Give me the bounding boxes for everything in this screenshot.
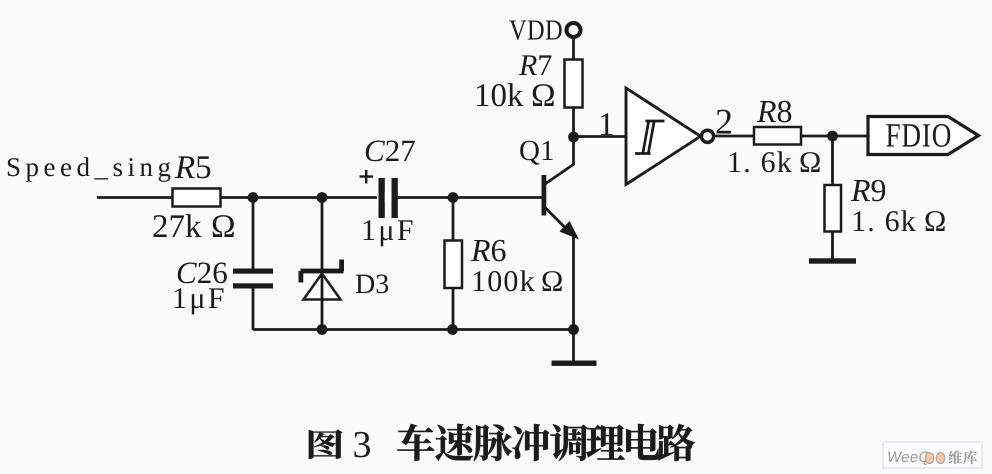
svg-text:10k: 10k (474, 78, 524, 114)
svg-text:FDIO: FDIO (886, 118, 953, 155)
svg-text:1. 6k: 1. 6k (851, 205, 917, 238)
svg-text:R5: R5 (174, 150, 212, 186)
svg-text:R6: R6 (470, 232, 507, 268)
svg-text:1μF: 1μF (172, 282, 227, 315)
svg-text:R9: R9 (850, 172, 887, 208)
svg-text:Q1: Q1 (519, 135, 554, 167)
svg-text:D3: D3 (355, 269, 389, 300)
svg-text:1μF: 1μF (361, 214, 416, 247)
svg-text:Ω: Ω (531, 78, 556, 114)
svg-text:Speed_sing: Speed_sing (6, 152, 176, 182)
svg-text:1. 6k: 1. 6k (727, 146, 793, 179)
svg-text:Ω: Ω (924, 205, 946, 238)
svg-text:Ω: Ω (541, 265, 563, 298)
svg-text:Ω: Ω (799, 146, 821, 179)
svg-text:R8: R8 (756, 93, 793, 129)
svg-text:3: 3 (353, 424, 372, 466)
svg-text:Ω: Ω (211, 209, 236, 245)
svg-text:VDD: VDD (509, 15, 563, 47)
svg-text:100k: 100k (471, 265, 536, 298)
svg-text:2: 2 (715, 102, 733, 142)
svg-text:1: 1 (598, 107, 615, 143)
svg-text:WeeQ: WeeQ (887, 449, 930, 466)
svg-text:C27: C27 (364, 133, 416, 168)
svg-text:27k: 27k (152, 209, 202, 245)
